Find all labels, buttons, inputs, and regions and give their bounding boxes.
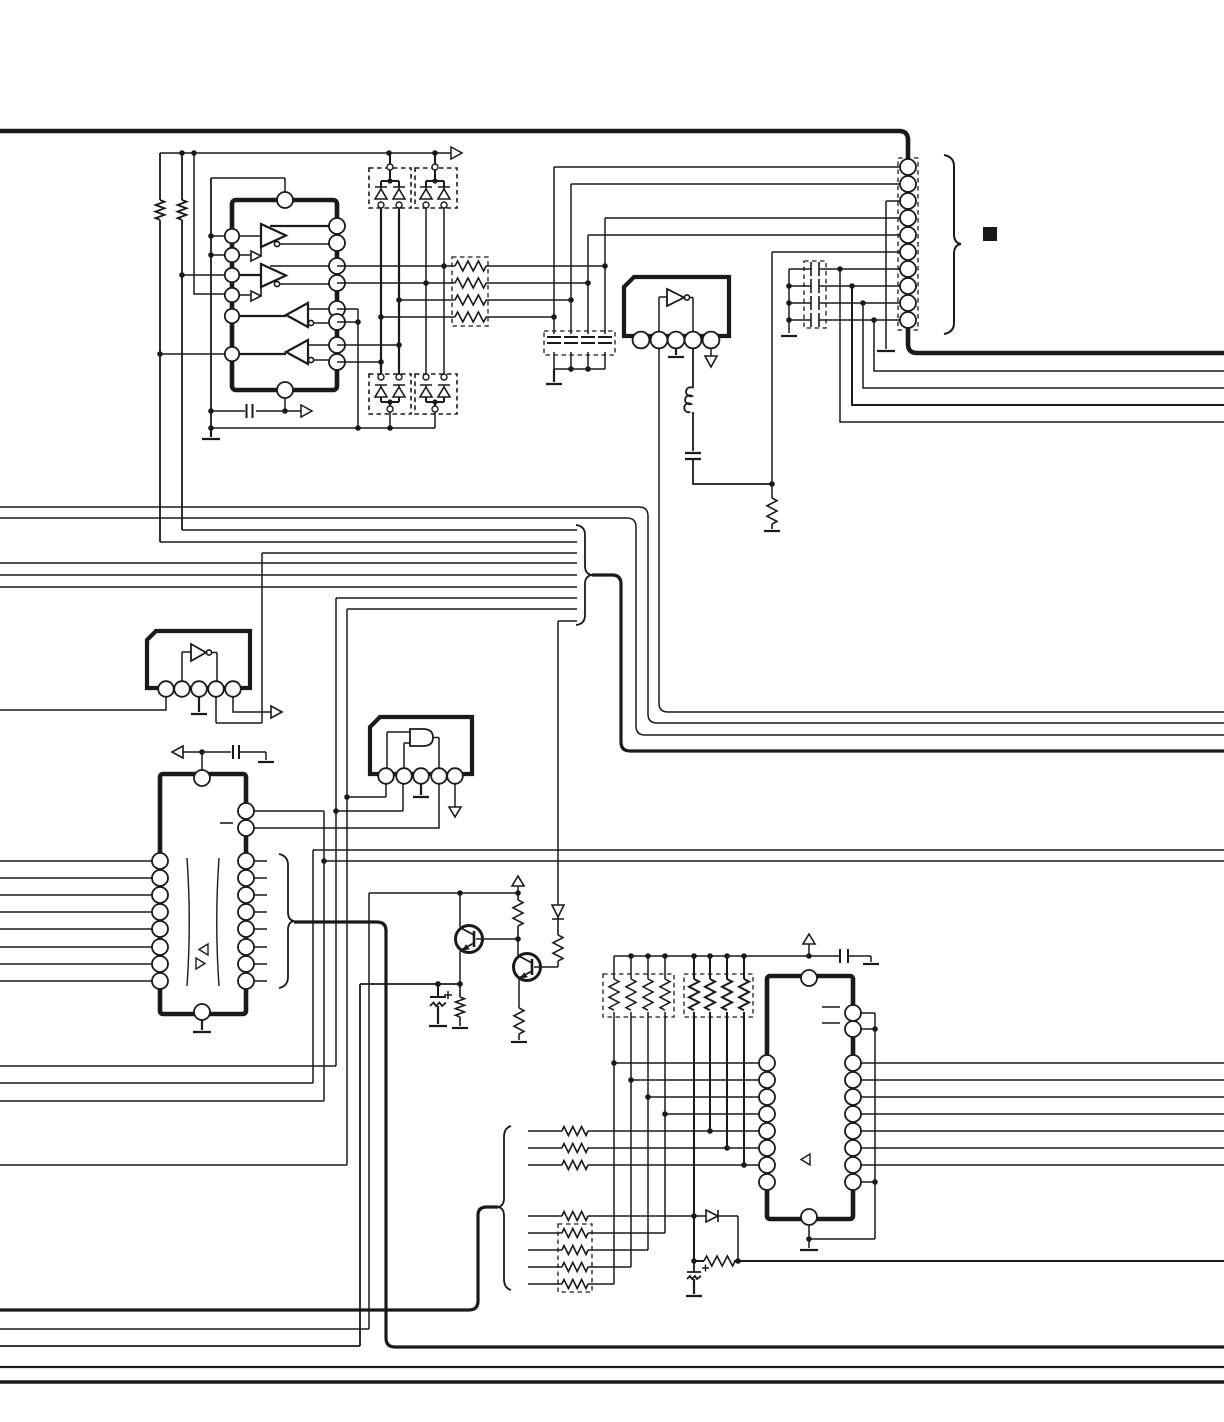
buffer A enable small triangle bbox=[251, 247, 261, 261]
wire: rows 5-7 from brace resistors to U6 bbox=[528, 1130, 759, 1132]
wire: top cap/arrow assembly bbox=[183, 752, 266, 760]
wire: U4 gate input2 bbox=[404, 743, 410, 768]
supply arrow up bbox=[512, 876, 524, 886]
connector: dashed outline around pin header bbox=[898, 158, 918, 330]
wire: U3 inverter output bbox=[212, 653, 217, 682]
resistor R8 on x558 bbox=[553, 919, 563, 961]
IC U6 body bbox=[767, 976, 853, 1219]
wire: diode column 399 bbox=[398, 208, 400, 374]
marker: inner left arc bbox=[187, 858, 189, 986]
capacitor C3 bbox=[564, 337, 578, 343]
wire: D2 stem bbox=[434, 153, 436, 164]
wire: from IC bottom pin bbox=[284, 398, 286, 411]
IC U2 body bbox=[624, 277, 729, 336]
buffer A inverted out bubble bbox=[274, 241, 279, 246]
wire: inverter D bubble line bbox=[314, 359, 337, 361]
resistor bank A dashed box bbox=[603, 974, 674, 1017]
wire: inverter D output left bbox=[232, 353, 286, 355]
resistor pack dashed box bbox=[452, 257, 488, 326]
wire: Q2 collector to Q1 base node bbox=[517, 939, 519, 955]
wire: buffer B enable input bbox=[232, 294, 251, 296]
diode pack D1 dashed box top-left bbox=[369, 168, 411, 208]
wire: filter verticals to cap bank bbox=[553, 167, 555, 369]
node: RC junctions bbox=[602, 263, 608, 269]
wire: stub to x347 vertical bbox=[347, 609, 577, 1165]
IC U5 right pin circles bbox=[238, 803, 254, 989]
diode D5 on x558 bbox=[552, 905, 564, 919]
wire: pin10 branch going right bbox=[874, 320, 1224, 371]
wire: vertical bus x211 down to ground bbox=[210, 178, 212, 428]
capacitor C6 bbox=[685, 453, 701, 459]
wire: U5 left pin lines from page edge bbox=[0, 860, 153, 862]
wire: pin3 ground line bbox=[885, 201, 887, 349]
arrow: signal out right bbox=[451, 147, 462, 159]
marker: small right triangle bbox=[196, 958, 205, 969]
wire: pin7 branch going right bbox=[840, 269, 1224, 422]
wire: Q1 base bbox=[476, 938, 518, 940]
5-resistor dashed box bbox=[558, 1224, 592, 1292]
resistor RS3 bbox=[562, 1161, 588, 1170]
diode D1a bbox=[375, 187, 387, 199]
wire: thick bus to brace bbox=[0, 1207, 498, 1310]
wire: loop to IC top pin bbox=[211, 178, 285, 192]
wire: diode column 426 bbox=[425, 208, 427, 374]
arrow: open triangle left bbox=[172, 746, 183, 758]
wire: connector lines from RC filters bbox=[554, 166, 900, 168]
wire: to resistor node bbox=[693, 459, 772, 484]
inverter U2 triangle bbox=[667, 289, 684, 306]
resistor RS8 bbox=[562, 1280, 588, 1289]
wire: x347 to left edge bbox=[0, 1164, 347, 1166]
wire: buffer B inverted out bbox=[280, 283, 337, 285]
diode D2b bbox=[438, 187, 450, 199]
wire: IC pin3 input from R-b bbox=[182, 274, 232, 276]
capacitor C-b bbox=[789, 279, 900, 293]
resistor RA4 bbox=[660, 956, 670, 1233]
wire: stub from x0 y575 bbox=[0, 574, 577, 576]
wire: U4 pin5 to down arrow bbox=[454, 784, 456, 807]
inverter C triangle left-pointing bbox=[286, 303, 308, 327]
wire: U5 bottom ground bbox=[193, 1020, 211, 1032]
wire: U6 pin8 to x875 bbox=[861, 1181, 875, 1183]
ground bbox=[258, 761, 274, 763]
wire: bottom bus to diode packs bbox=[211, 427, 435, 429]
wire: IC pin2 input bbox=[211, 254, 232, 256]
node: bus junctions bbox=[628, 953, 634, 959]
resistor R6 vertical bbox=[513, 893, 523, 939]
wire: Q1 emitter bbox=[459, 951, 461, 984]
wire: y1261 long line bbox=[694, 1260, 1224, 1262]
inverter D triangle left-pointing bbox=[286, 340, 308, 364]
wire: stub from x0 y563 bbox=[0, 562, 577, 564]
marker: inner right arc bbox=[217, 858, 219, 986]
wire: D1 stem bbox=[389, 153, 391, 164]
marker: small left triangle bbox=[199, 944, 208, 955]
capacitor C2 bbox=[547, 337, 561, 343]
ground bbox=[863, 963, 879, 965]
IC U6 right osc pin circles bbox=[845, 1005, 861, 1037]
wire: IC pins 309/322 to x358 bbox=[337, 309, 358, 428]
diode pack D3 dashed box bottom-left bbox=[369, 374, 411, 414]
wire: thick top frame line with corner down to right connector bbox=[0, 131, 1224, 353]
resistor R-b vertical bbox=[178, 153, 187, 530]
buffer B triangle bbox=[261, 264, 286, 287]
label placeholder black square bbox=[983, 227, 997, 241]
node: column junctions bbox=[441, 263, 447, 269]
wire: row8 bbox=[528, 1283, 614, 1285]
diode pack D4 dashed box bottom-right bbox=[415, 374, 457, 414]
ground bbox=[781, 335, 797, 337]
wire: IC pin to diode col 381 bbox=[337, 361, 381, 363]
wire: U6 osc pins right bbox=[861, 1013, 875, 1239]
resistor RS6 bbox=[562, 1246, 588, 1255]
wire: U3 pin1 to left edge bbox=[0, 697, 166, 710]
wire: row7 bbox=[528, 1266, 631, 1268]
resistor RS7 bbox=[562, 1263, 588, 1272]
wire: U4 gate output bbox=[433, 738, 439, 769]
wire: U2 pin2 long route to right edge bbox=[659, 348, 1224, 712]
wire: branch from x336 to AND pin2 bbox=[336, 784, 403, 811]
wire: inverter C bubble line bbox=[314, 322, 337, 324]
inverter D bubble bbox=[308, 357, 313, 362]
diode D6 bbox=[706, 1210, 718, 1222]
marker: small left triangle in U6 bbox=[801, 1154, 810, 1165]
connector pin circles P1-P10 bbox=[900, 159, 916, 328]
wire: top rail with arrow bbox=[160, 152, 451, 154]
inverter C bubble bbox=[308, 320, 313, 325]
wire: cap bank common bus bbox=[788, 269, 790, 333]
wire: buffer B input bbox=[232, 274, 261, 276]
resistor RS1 bbox=[562, 1127, 588, 1136]
resistor R4 bbox=[455, 312, 554, 322]
resistor RS4 bbox=[562, 1212, 588, 1221]
diode D2a bbox=[420, 187, 432, 199]
wire: U6 bottom pin ground + link bbox=[809, 1225, 875, 1248]
wire: buffer A input bbox=[232, 235, 261, 237]
wire: D4 stem to bus bbox=[434, 412, 436, 428]
electrolytic cap C8 bbox=[430, 984, 446, 997]
resistor RS5 bbox=[562, 1229, 588, 1238]
wire: U3 inverter input bbox=[182, 652, 191, 681]
wire: stub to x336 vertical bbox=[336, 598, 577, 1066]
diode D3b bbox=[393, 385, 405, 397]
IC U6 left pin circles bbox=[759, 1055, 775, 1190]
wire: buffer B true out bbox=[270, 265, 337, 267]
wire: x336 to left edge bbox=[0, 1065, 336, 1067]
wire: decoupling cap line below IC bbox=[211, 410, 301, 412]
wire: U4 gate input1 bbox=[387, 732, 410, 768]
IC U3 pins bbox=[158, 681, 241, 697]
wire: row6 bbox=[528, 1249, 648, 1251]
ground bbox=[877, 350, 895, 352]
brace right of connector bbox=[944, 155, 961, 334]
wire: inverter C line to pin bbox=[308, 308, 337, 310]
wire: row5 bbox=[528, 1232, 665, 1234]
buffer B enable small triangle bbox=[251, 287, 261, 301]
diode D1b bbox=[393, 187, 405, 199]
wire: thick bus from brace to right edge bbox=[592, 575, 1224, 751]
supply arrow up bbox=[803, 934, 815, 944]
wire: full line y861 bbox=[324, 860, 1224, 862]
wire: U2 pin4 to inductor bbox=[692, 348, 694, 388]
ground bbox=[546, 369, 562, 384]
wire: Q1 collector bbox=[459, 893, 461, 927]
wire: bottom border line lower thick bbox=[0, 1380, 1224, 1384]
wire: diode column 444 bbox=[443, 208, 445, 374]
resistor R5 vertical bbox=[767, 498, 777, 529]
wire: thick bus from U5 brace to bottom right bbox=[294, 922, 1224, 1347]
wire: stub from mid inverter pin4 bbox=[216, 553, 577, 723]
wire: U2 pin5 to down arrow bbox=[710, 348, 712, 356]
wire: U3 pin4 down bbox=[215, 697, 217, 723]
resistor RS2 bbox=[562, 1144, 588, 1153]
arrow: open triangle right bbox=[271, 706, 282, 718]
wire: line2 from IC pin to resistor bbox=[337, 282, 455, 284]
wire: U2 pin3 ground bbox=[668, 348, 684, 357]
ground bbox=[202, 428, 220, 439]
resistor RA2 bbox=[626, 956, 636, 1267]
inductor L1 bbox=[684, 387, 693, 412]
brace right of U5 bbox=[279, 854, 294, 988]
resistor R1 bbox=[455, 261, 605, 271]
wire: line4 bbox=[381, 316, 455, 318]
resistor RB2 bbox=[705, 956, 715, 1131]
electrolytic cap C10 bbox=[687, 1261, 701, 1272]
transistor Q2 bbox=[514, 954, 541, 981]
capacitor C5 bbox=[598, 337, 612, 343]
resistor R10 bbox=[456, 984, 465, 1026]
IC U5 pins top/bottom bbox=[194, 770, 210, 1020]
wire: U6 left pin rows 1-4 bbox=[614, 1062, 759, 1064]
wire: inverter D line to pin bbox=[308, 344, 337, 346]
resistor R7 vertical bbox=[514, 1008, 524, 1040]
resistor RB4 bbox=[739, 956, 749, 1165]
capacitor C9 bbox=[840, 949, 848, 963]
wire: line1 from IC pin to resistor bbox=[337, 265, 455, 267]
wire: U4 pin3 ground bbox=[413, 784, 429, 797]
wire: inverter input bbox=[659, 297, 667, 333]
wire: buffer A true out bbox=[270, 225, 337, 227]
buffer B inverted out bubble bbox=[274, 281, 279, 286]
wire: bottom border line upper bbox=[0, 1366, 1224, 1368]
wire: buffer A enable input bbox=[232, 254, 251, 256]
wire: Q2 base from diode chain bbox=[534, 961, 558, 967]
diode D3a bbox=[375, 385, 387, 397]
wire: emitter rail y984 bbox=[0, 984, 460, 1346]
capacitor C-a bbox=[789, 262, 900, 276]
ground bbox=[511, 1041, 527, 1043]
wire: diode column 381 bbox=[380, 208, 382, 374]
wire: pin8 branch going right bbox=[852, 286, 1224, 405]
wire: Q2 emitter to resistor bbox=[518, 979, 520, 1008]
brace gathering keypad lines bbox=[498, 1126, 511, 1290]
diode D4b bbox=[438, 385, 450, 397]
resistor RB1 bbox=[689, 956, 699, 1261]
IC U5 left pin circles bbox=[152, 853, 168, 989]
wire: inverter C output left bbox=[232, 315, 286, 317]
IC U2 pins bbox=[633, 332, 720, 349]
diode D4a bbox=[420, 385, 432, 397]
IC U6 top/bottom pins bbox=[801, 970, 817, 1225]
wire: D3 stem to bus bbox=[389, 412, 391, 428]
resistor RB3 bbox=[722, 956, 732, 1148]
wire: stub from R-a column bbox=[160, 541, 577, 543]
capacitor C7 bbox=[233, 745, 239, 759]
wire: pin6 line to LC filter bbox=[772, 251, 900, 253]
capacitor C4 bbox=[581, 337, 595, 343]
resistor R9 bbox=[704, 1256, 735, 1266]
arrow: open triangle down bbox=[449, 807, 461, 817]
capacitor bank by connector: dashed box bbox=[804, 261, 826, 328]
IC U4 body bbox=[370, 717, 472, 774]
inverter U3 triangle bbox=[191, 644, 206, 661]
wire: U5 pin R1 to x324 net bbox=[254, 811, 324, 1101]
ground bbox=[764, 530, 780, 532]
wire: IC pin1 input bbox=[211, 235, 232, 237]
diode pack D2 dashed box top-right bbox=[415, 168, 457, 208]
node: cap bus junctions bbox=[786, 283, 792, 289]
wire: U6 right pin rows to edge bbox=[861, 1062, 1224, 1064]
resistor R2 bbox=[455, 278, 588, 288]
buffer A triangle bbox=[261, 224, 286, 247]
wire: U5 right pin stubs bbox=[254, 861, 267, 981]
wire: U3 pin3 ground bbox=[191, 697, 207, 714]
wire: row4 with in-line resistor and diode bbox=[528, 1216, 738, 1261]
wire: cap ground bus bbox=[554, 368, 605, 370]
wire: U4 pin4 to big IC pin R2 line bbox=[246, 784, 439, 828]
resistor R3 bbox=[455, 295, 571, 305]
wire: branch from x347 to AND pin1 bbox=[347, 784, 386, 797]
filter cap dashed box bbox=[544, 331, 615, 355]
wire: stub to x558 diode chain bbox=[558, 621, 577, 905]
marker: oscillator dashes bbox=[822, 1007, 840, 1023]
wire: VCC bus y956 bbox=[614, 956, 871, 962]
resistor RA3 bbox=[643, 956, 653, 1250]
wire: line from x0 y507 to right edge via x648 bbox=[0, 507, 1224, 723]
arrow: open triangle down bbox=[705, 356, 717, 367]
wire: line3 bbox=[399, 299, 455, 301]
capacitor C-d bbox=[789, 313, 900, 327]
IC U3 body bbox=[147, 631, 250, 688]
transistor Q1 bbox=[456, 926, 483, 953]
capacitor C-c bbox=[789, 296, 900, 310]
wire: x324 to left edge bbox=[0, 1100, 324, 1102]
arrow: out right bbox=[301, 405, 312, 417]
wire: inverter output bbox=[690, 298, 693, 334]
wire: VCC rail y893 bbox=[0, 893, 518, 1329]
wire: third vertical to pin4 bbox=[194, 153, 232, 294]
wire: stub from x0 y587 bbox=[0, 586, 577, 588]
wire: line from x0 y518 to right edge via x636 bbox=[0, 518, 1224, 735]
wire: x772 vertical from pin6 line bbox=[771, 252, 773, 498]
IC U6 right pin circles bbox=[845, 1055, 861, 1190]
resistor R-a vertical bbox=[156, 153, 165, 542]
IC U4 pins bbox=[378, 768, 463, 784]
capacitor C1 bbox=[247, 404, 253, 418]
IC U1 pin circles bbox=[225, 192, 345, 398]
node: rail junctions bbox=[179, 150, 185, 156]
resistor bank B dashed box bbox=[684, 974, 753, 1017]
AND gate U4 bbox=[410, 729, 433, 746]
wire: pin9 branch going right bbox=[863, 303, 1224, 388]
brace gathering bundle bbox=[576, 525, 592, 625]
IC U5 body bbox=[160, 774, 246, 1014]
wire: buffer A inverted out bbox=[280, 243, 337, 245]
IC U1 driver body bbox=[232, 200, 337, 390]
wire: full line y850 bbox=[0, 850, 1224, 1083]
wire: stub from R-b column bbox=[182, 529, 577, 531]
wire: IC pin to diode col 399 bbox=[337, 344, 399, 346]
wire: IC pin6 input from R-a bbox=[160, 353, 232, 355]
marker: dash inside U5 bbox=[220, 822, 233, 824]
wire: U3 pin5 to arrow bbox=[233, 697, 271, 712]
wire: to U5 top pin bbox=[201, 752, 203, 770]
resistor RA1 bbox=[609, 956, 619, 1284]
